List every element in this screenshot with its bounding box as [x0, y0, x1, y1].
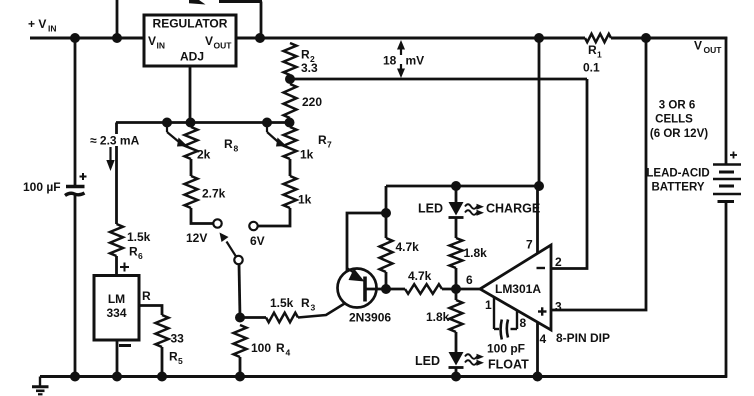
node junction dot R4 ground [235, 372, 245, 382]
wire supply riser from top bus [538, 38, 541, 186]
svg-text:V: V [148, 34, 156, 48]
svg-text:6: 6 [466, 273, 473, 287]
18 mV measurement arrow [400, 47, 402, 55]
wire cropped bypass top horizontal [219, 0, 262, 3]
wire 1.8k upper to pin6 node [455, 268, 458, 289]
resistor R3 1.5k [266, 313, 298, 323]
svg-text:R: R [142, 289, 151, 303]
switch contact 6V [249, 222, 257, 230]
svg-text:4: 4 [540, 332, 547, 346]
wire R5 bottom lead [161, 347, 164, 377]
wire cropped bypass vertical right into Vout [260, 2, 263, 39]
svg-text:1: 1 [485, 298, 492, 312]
svg-text:(6 OR 12V): (6 OR 12V) [650, 128, 708, 140]
wire right edge vertical (Vout rail down to battery +) [725, 37, 728, 165]
wire top bus from R1 to output corner [611, 37, 727, 40]
svg-text:R: R [588, 43, 597, 57]
wire 18mV sense [290, 78, 587, 81]
potentiometer R7 1k body [284, 127, 297, 159]
node junction dot R5 ground [157, 372, 167, 382]
wire pin 1 lead [493, 297, 495, 329]
svg-text:33: 33 [171, 332, 185, 346]
wire capacitor C1 bottom lead [74, 195, 77, 377]
node junction dot bypass-to-Vout [255, 33, 265, 43]
node junction dot cap ground [70, 372, 80, 382]
svg-text:V: V [205, 34, 213, 48]
svg-text:334: 334 [106, 306, 126, 320]
resistor 1k fixed [284, 176, 297, 208]
wire 2.7k to 12V contact [191, 208, 213, 224]
LED D3 light arrows [465, 354, 477, 359]
wire 1.8k lower to LED2 [455, 332, 458, 352]
wire capacitor C1 top lead [74, 38, 77, 187]
wire current-source branch upper [115, 146, 118, 224]
svg-text:7: 7 [327, 140, 332, 150]
resistor R1 0.1 [585, 34, 611, 42]
wire R7 to 1k [289, 159, 292, 176]
svg-text:LM301A: LM301A [495, 282, 541, 296]
svg-text:12V: 12V [186, 231, 207, 245]
node junction dot at top bypass wire tap [112, 33, 122, 43]
wire battery bottom lead [725, 202, 728, 378]
svg-text:IN: IN [157, 41, 166, 51]
LM334 plus sign [120, 266, 129, 268]
LM334 minus sign [119, 344, 131, 347]
svg-text:2k: 2k [197, 148, 211, 162]
wire ADJ rail left elbow down [115, 123, 118, 135]
svg-text:CHARGE: CHARGE [486, 202, 540, 216]
switch S1 arm with arrow [227, 242, 237, 257]
svg-text:4.7k: 4.7k [396, 240, 420, 254]
svg-text:V: V [694, 39, 702, 53]
resistor 1.8k upper [450, 238, 463, 268]
svg-text:2.7k: 2.7k [202, 187, 226, 201]
wire R6 to LM334 [115, 256, 118, 275]
svg-text:LM: LM [108, 292, 125, 306]
capacitor C2 100pF [494, 328, 499, 330]
svg-text:≈ 2.3 mA: ≈ 2.3 mA [90, 134, 140, 148]
svg-text:LED: LED [415, 354, 440, 368]
svg-text:6V: 6V [250, 234, 265, 248]
svg-text:1k: 1k [298, 193, 312, 207]
svg-text:FLOAT: FLOAT [488, 358, 529, 372]
svg-text:100 pF: 100 pF [487, 342, 525, 356]
resistor 1.8k lower [455, 289, 458, 300]
svg-text:8-PIN DIP: 8-PIN DIP [556, 331, 610, 345]
wire pin 2 inverting input [551, 79, 587, 269]
node junction dot rail / divider chain [285, 118, 295, 128]
svg-text:BATTERY: BATTERY [651, 182, 704, 194]
wire R3 to transistor base (diagonal) [298, 292, 364, 318]
regulator U2 box [144, 15, 236, 66]
svg-text:R: R [318, 133, 327, 147]
wire LED2 cathode to ground bus [455, 368, 458, 377]
resistor R5 33 [156, 315, 169, 347]
wire pin 7 supply [536, 186, 539, 254]
current direction arrow (down) [109, 147, 111, 162]
svg-text:1.8k: 1.8k [464, 246, 488, 260]
wire LED rail horizontal [386, 185, 539, 188]
LED D3 FLOAT [449, 352, 464, 366]
wire R8 to 2.7k [190, 159, 193, 176]
svg-text:R: R [169, 350, 178, 364]
resistor 220 [284, 84, 297, 118]
svg-text:8: 8 [234, 144, 239, 154]
capacitor C1 bottom plate (curved) [65, 193, 85, 196]
op-amp minus input sign [537, 267, 546, 269]
transistor Q1 emitter arrow (PNP) [347, 268, 355, 274]
svg-text:7: 7 [526, 238, 533, 252]
svg-text:5: 5 [178, 356, 183, 366]
wire R4 bottom lead [239, 357, 242, 377]
op-amp U1 LM301A triangle [480, 245, 551, 330]
IC U3 LM334 box [94, 276, 139, 341]
svg-text:1.8k: 1.8k [426, 310, 450, 324]
svg-text:220: 220 [302, 95, 322, 109]
svg-text:LED: LED [418, 202, 443, 216]
svg-text:R: R [129, 245, 138, 259]
node junction dot collector [381, 284, 391, 294]
svg-text:OUT: OUT [704, 45, 723, 55]
ground symbol [39, 377, 41, 386]
capacitor C1 top plate [66, 185, 85, 189]
svg-text:100: 100 [251, 341, 271, 355]
svg-text:R: R [224, 137, 233, 151]
wire top bus left segment (+Vin input to regulator Vin pin) [30, 37, 144, 40]
svg-text:3: 3 [555, 300, 562, 314]
svg-text:4.7k: 4.7k [408, 269, 432, 283]
svg-text:OUT: OUT [214, 41, 233, 51]
svg-text:CELLS: CELLS [655, 114, 693, 126]
switch contact 12V [213, 219, 221, 227]
resistor R4 100 [234, 325, 247, 357]
wire top bus from regulator Vout to R1 [236, 37, 585, 40]
wire 1k to 6V contact [259, 208, 291, 226]
wire ADJ rail horizontal [116, 121, 290, 124]
node junction dot R2/220/sense [285, 74, 295, 84]
wire 4.7k to collector node [385, 272, 388, 289]
svg-text:0.1: 0.1 [583, 61, 600, 75]
battery BT1 plus sign [730, 154, 737, 156]
resistor 4.7k vertical [380, 238, 393, 272]
wire LED rail down segment [385, 186, 388, 238]
svg-text:2N3906: 2N3906 [349, 311, 391, 325]
wire to pin6 node [442, 288, 480, 291]
node junction dot pin3 riser top [641, 33, 651, 43]
wire pin 8 lead [516, 310, 518, 329]
pot R7 wiper arrow [266, 122, 268, 132]
transistor Q1 base bar [363, 277, 367, 302]
wire ground bus [40, 375, 727, 378]
LED D2 light arrows [465, 204, 477, 209]
transistor Q1 2N3906 circle [338, 269, 377, 308]
wire LED1 cathode lead [455, 218, 458, 238]
node junction dot LED float ground [451, 372, 461, 382]
svg-text:3 OR 6: 3 OR 6 [659, 100, 695, 112]
node junction dot at input cap tap [70, 33, 80, 43]
node junction dot supply riser top [534, 33, 544, 43]
svg-text:1: 1 [597, 50, 602, 60]
node junction dot pin 6 [451, 284, 461, 294]
wire R3 left lead [240, 316, 266, 319]
svg-text:3.3: 3.3 [301, 61, 318, 75]
wire LM334 minus lead to ground bus [116, 340, 119, 377]
svg-text:1k: 1k [300, 148, 314, 162]
resistor 2.7k [185, 176, 198, 208]
svg-text:+ V: + V [28, 17, 46, 31]
node junction dot LED rail / supply riser [534, 181, 544, 191]
wire regulator ADJ pin down to rail [189, 66, 192, 122]
svg-text:6: 6 [138, 251, 143, 261]
svg-text:8: 8 [520, 316, 527, 330]
battery BT1 plates [713, 163, 741, 166]
node junction dot R3/R4/switch [235, 313, 245, 323]
wire switch pivot down to R3/R4 node [239, 264, 240, 318]
wire Q1 collector [366, 288, 386, 291]
svg-text:R: R [276, 341, 285, 355]
node junction dot emitter tie [381, 208, 391, 218]
svg-text:2: 2 [555, 255, 562, 269]
svg-text:LEAD-ACID: LEAD-ACID [646, 168, 709, 180]
node junction dot rail / ADJ / R8 top [186, 118, 196, 128]
wire LED1 anode lead [455, 186, 458, 202]
svg-text:R: R [301, 48, 310, 62]
diode D1 (cropped at top edge) [189, 0, 206, 5]
node junction dot LED charge top [451, 181, 461, 191]
pot R8 wiper arrow [166, 122, 168, 132]
node junction dot rail / R8 wiper [162, 118, 172, 128]
wire cropped bypass-diode vertical left [116, 0, 119, 38]
svg-text:4: 4 [286, 348, 291, 358]
resistor R2 3.3 [284, 43, 297, 75]
svg-text:1.5k: 1.5k [127, 230, 151, 244]
svg-text:mV: mV [406, 54, 425, 68]
svg-text:100 µF: 100 µF [23, 180, 61, 194]
svg-text:1.5k: 1.5k [270, 296, 294, 310]
svg-text:18: 18 [383, 54, 397, 68]
wire pin 3 noninverting input [551, 38, 646, 310]
svg-text:R: R [301, 296, 310, 310]
wire LM334 R pin lead [139, 306, 162, 316]
node junction dot rail / R7 wiper [262, 118, 272, 128]
node junction dot LM334 ground [112, 372, 122, 382]
wire pin 4 to ground bus [536, 322, 539, 377]
potentiometer R8 2k body [185, 127, 198, 159]
node junction dot pin 4 ground [533, 372, 543, 382]
resistor R6 1.5k [110, 224, 123, 256]
svg-text:3: 3 [311, 303, 316, 313]
switch S1 pivot contact [234, 256, 242, 264]
capacitor C1 plus sign [80, 176, 87, 178]
op-amp plus input sign [538, 310, 547, 312]
resistor 4.7k horizontal [386, 288, 405, 291]
svg-text:ADJ: ADJ [180, 50, 204, 64]
wire Q1 emitter up and over to LED-rail node [347, 213, 386, 272]
svg-text:REGULATOR: REGULATOR [153, 17, 228, 31]
LED D2 CHARGE [449, 202, 464, 216]
svg-text:IN: IN [48, 24, 57, 34]
